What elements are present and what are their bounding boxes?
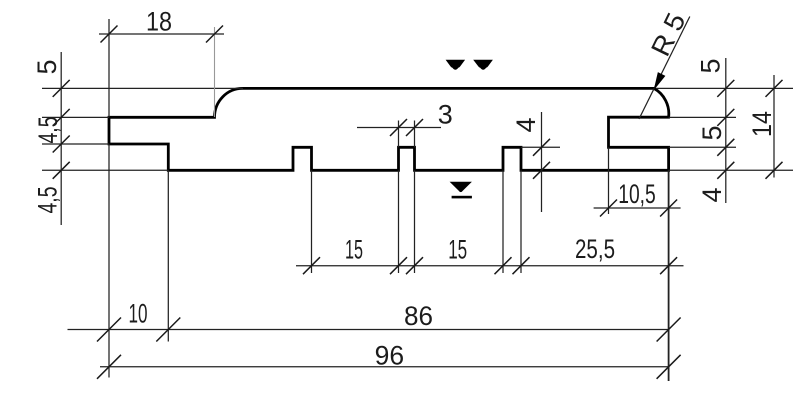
datum mark triangle bottom	[450, 182, 472, 192]
svg-text:4,5: 4,5	[33, 187, 63, 214]
extension groove left edge down	[608, 147, 610, 214]
extension tongue top left	[42, 116, 109, 118]
left dimension line	[60, 52, 62, 225]
extension notch3 left down	[502, 170, 504, 273]
ticks right dim 2	[766, 80, 783, 179]
ticks 4 mid	[533, 139, 550, 179]
ticks left dim	[53, 80, 70, 179]
extension notch1 right down	[311, 170, 313, 273]
leader line R5	[639, 17, 690, 120]
svg-text:86: 86	[404, 301, 433, 331]
ticks row1	[303, 257, 677, 274]
ticks row3	[97, 355, 681, 379]
extension left edge vertical lower	[108, 144, 110, 378]
extension notch2 right	[414, 121, 416, 148]
ticks row2	[97, 318, 681, 342]
extension step edge down	[167, 170, 169, 341]
svg-text:5: 5	[697, 125, 727, 140]
extension tongue bottom left	[42, 143, 109, 145]
svg-text:4: 4	[511, 117, 541, 132]
extension 18 right gray	[214, 27, 216, 117]
svg-text:10,5: 10,5	[618, 179, 656, 209]
dimension line 18	[99, 33, 224, 35]
dimension line row2 10/86	[68, 329, 670, 331]
dimension line row3 96	[100, 366, 669, 368]
face mark triangle 2	[473, 60, 493, 70]
dimension line row1 15/15/25,5	[296, 265, 684, 267]
svg-text:14: 14	[747, 111, 777, 137]
svg-text:96: 96	[375, 341, 405, 371]
svg-text:5: 5	[32, 59, 62, 74]
arrowhead R5	[655, 73, 665, 89]
svg-text:25,5: 25,5	[575, 234, 615, 264]
board profile outline	[109, 88, 669, 170]
extension groove top right	[669, 116, 736, 118]
svg-text:18: 18	[146, 7, 172, 37]
svg-text:15: 15	[345, 234, 363, 264]
ticks right dim 1	[717, 80, 734, 179]
datum mark underline	[452, 196, 472, 199]
dimension line 3	[357, 127, 441, 129]
svg-text:4,5: 4,5	[33, 117, 63, 144]
extension top surface right	[656, 87, 793, 89]
extension right edge down	[668, 170, 670, 381]
dimension line 10,5	[594, 207, 681, 209]
ticks 18	[101, 26, 224, 43]
svg-text:15: 15	[448, 234, 467, 264]
extension notch2 left	[398, 121, 400, 148]
extension notch2 left down	[398, 170, 400, 273]
extension notch2 right down	[414, 170, 416, 273]
right dimension line 2	[773, 75, 775, 178]
extension bottom surface right	[669, 169, 793, 171]
extension bottom surface left	[42, 169, 168, 171]
extension top surface left	[42, 87, 243, 89]
svg-text:4: 4	[697, 187, 727, 202]
svg-text:5: 5	[696, 58, 726, 73]
extension notch3 top right	[521, 146, 560, 148]
extension notch3 right down	[520, 170, 522, 273]
dimension line 4 vertical	[541, 112, 543, 212]
right dimension line 1	[725, 58, 727, 203]
extension groove bottom right	[669, 146, 736, 148]
extension left edge vertical upper	[108, 19, 110, 117]
svg-text:3: 3	[438, 100, 453, 130]
face mark triangle 1	[446, 60, 466, 70]
ticks 10,5	[600, 200, 677, 217]
ticks 3	[390, 119, 423, 136]
svg-text:10: 10	[129, 299, 148, 329]
